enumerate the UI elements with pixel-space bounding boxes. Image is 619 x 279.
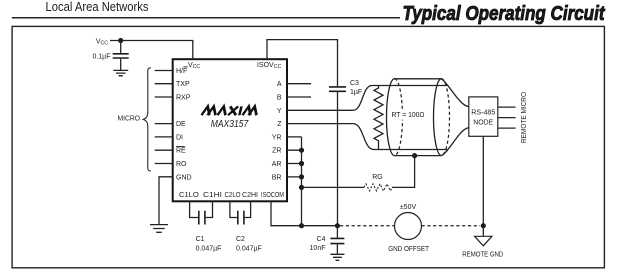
svg-text:MAX3157: MAX3157 [211, 119, 249, 130]
cable exit wire bottom [442, 128, 469, 156]
svg-text:H/F: H/F [176, 68, 187, 75]
svg-text:0.047µF: 0.047µF [196, 245, 222, 252]
junction RG branch [299, 185, 304, 190]
dashed gnd offset line left [340, 225, 394, 227]
wire Z to cable [287, 124, 447, 150]
svg-text:C1: C1 [196, 236, 205, 243]
svg-text:RT = 100Ω: RT = 100Ω [392, 112, 425, 119]
cable exit wire top [442, 79, 469, 107]
ground (IC GND) [150, 225, 168, 233]
junction BR [299, 174, 304, 179]
wire ISOVCC to C3 [267, 40, 338, 87]
cable right ellipse solid [434, 79, 442, 156]
svg-text:REMOTE MICRO: REMOTE MICRO [521, 92, 528, 143]
stub A [287, 83, 311, 85]
svg-text:A: A [277, 81, 282, 88]
svg-text:C3: C3 [350, 80, 359, 87]
svg-text:DE: DE [176, 121, 186, 128]
svg-text:Z: Z [277, 121, 282, 128]
overline over F of H/F [184, 66, 188, 68]
svg-text:10nF: 10nF [310, 245, 326, 252]
svg-text:YR: YR [272, 134, 282, 141]
svg-text:RO: RO [176, 161, 187, 168]
svg-text:0.1µF: 0.1µF [92, 54, 110, 61]
left pin stubs H/F..GND [155, 71, 173, 164]
stubs YR ZR AR BR to common rail [287, 137, 302, 177]
junction ZR [299, 148, 304, 153]
svg-text:C4: C4 [317, 236, 326, 243]
svg-text:GND: GND [176, 174, 192, 181]
svg-text:Local Area Networks: Local Area Networks [46, 0, 149, 14]
wire C3 down to ISOCOM rail [337, 92, 339, 226]
svg-text:Typical Operating Circuit: Typical Operating Circuit [403, 3, 606, 25]
ground (0.1uF) [113, 70, 128, 75]
svg-text:MICRO: MICRO [118, 115, 141, 122]
wire RS-485 node to remote gnd [482, 136, 484, 225]
cable left ellipse solid [387, 79, 395, 156]
RT value label [390, 109, 427, 120]
junction rail/ISOCOM [299, 223, 304, 228]
cable left ellipse dashed [395, 79, 403, 156]
svg-text:BR: BR [272, 174, 282, 181]
RS-485 node box [469, 97, 498, 136]
header rule [12, 17, 400, 19]
cable cylinder bottom [395, 155, 442, 157]
op IC U1 MAX3157 body [173, 59, 287, 201]
junction remote gnd [481, 223, 486, 228]
wire VCC to pin [110, 41, 193, 60]
stub B [287, 96, 311, 98]
capacitor C2 0.047uF wires [230, 201, 251, 217]
svg-text:C2HI: C2HI [242, 192, 258, 199]
gnd offset source circle [395, 213, 422, 240]
svg-text:1µF: 1µF [350, 89, 362, 96]
cable right ellipse dashed [442, 79, 450, 156]
dashed gnd offset line right [422, 225, 481, 227]
svg-text:NODE: NODE [473, 119, 493, 126]
capacitor C1 plates [199, 211, 205, 225]
svg-text:C1HI: C1HI [203, 192, 222, 199]
wire Y to cable [287, 86, 447, 111]
capacitor C1 0.047uF wires [190, 201, 213, 217]
svg-text:REMOTE GND: REMOTE GND [462, 251, 503, 258]
svg-text:TXP: TXP [176, 81, 190, 88]
capacitor C4 10nF [336, 226, 338, 238]
wire to RG [302, 186, 365, 188]
wire ISOCOM down to rail [271, 201, 337, 225]
junction cable shield [412, 153, 417, 158]
svg-text:B: B [277, 95, 282, 102]
resistor RG (dashed zigzag) [364, 184, 392, 191]
svg-text:GND OFFSET: GND OFFSET [388, 246, 429, 253]
maxim logo [202, 106, 259, 115]
svg-text:Y: Y [277, 108, 282, 115]
svg-text:±50V: ±50V [400, 204, 417, 211]
svg-text:ZR: ZR [272, 148, 281, 155]
capacitor C3 1uF [329, 87, 346, 91]
ground (C4) [330, 254, 344, 260]
resistor RT zigzag [374, 86, 383, 150]
capacitor 0.1uF [120, 41, 122, 54]
svg-text:C1LO: C1LO [179, 192, 199, 199]
wire RG to cable shield [392, 156, 415, 188]
svg-text:RXP: RXP [176, 95, 191, 102]
RS-485 node stubs [498, 107, 516, 128]
junction C4 [335, 223, 340, 228]
svg-text:RS-485: RS-485 [471, 110, 495, 117]
micro brace [143, 68, 151, 171]
junction AR [299, 161, 304, 166]
svg-text:ISOCOM: ISOCOM [261, 192, 284, 199]
common receiver rail [301, 137, 303, 226]
svg-text:C2: C2 [236, 236, 245, 243]
svg-text:RE: RE [176, 148, 186, 155]
wire GND pin to ground [159, 177, 173, 224]
cable cylinder top [395, 78, 442, 80]
remote ground symbol [475, 236, 492, 246]
svg-text:AR: AR [272, 161, 282, 168]
overline over RE [176, 146, 185, 148]
junction VCC node [118, 38, 123, 43]
svg-text:C2LO: C2LO [225, 192, 241, 199]
svg-text:0.047µF: 0.047µF [236, 245, 262, 252]
svg-text:DI: DI [176, 134, 183, 141]
svg-text:RG: RG [372, 174, 383, 181]
capacitor C2 plates [238, 211, 244, 225]
